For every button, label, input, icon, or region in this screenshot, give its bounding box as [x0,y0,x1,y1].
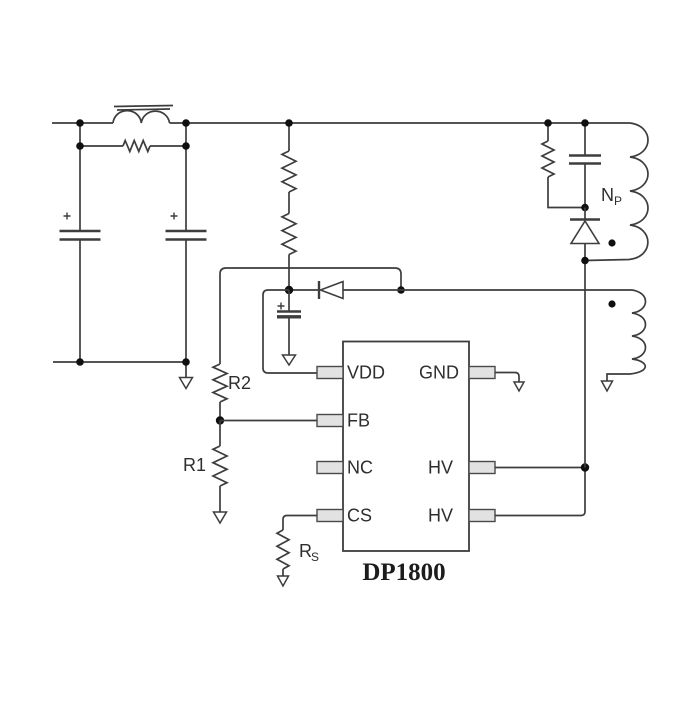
node: bottom rail / C2 ground junction [182,358,190,366]
node: top rail / startup resistor junction [285,119,293,127]
svg-text:GND: GND [419,363,459,383]
node: R2 wire / aux winding wire junction [397,286,405,294]
transformer aux winding [607,290,646,381]
pin HV2 of U1 [469,510,495,522]
pin NC of U1 [317,462,343,474]
pin FB of U1 [317,415,343,427]
wire: FB node to FB pin [220,420,317,422]
svg-text:DP1800: DP1800 [362,559,445,586]
node: primary bottom / drain junction [581,257,589,265]
wire: HV pin row3 to drain net [495,467,585,469]
node A: VDD storage node (diode cathode) [285,286,293,294]
ground (GND pin) [514,382,524,391]
node: HV junction [581,463,589,471]
node: bottom rail / C1 junction [76,358,84,366]
svg-text:NC: NC [347,458,373,478]
wire: CS pin to Rs [283,516,317,531]
capacitor C3 (VDD electrolytic) [277,290,301,355]
capacitor C2 (bulk electrolytic, right) [166,123,207,362]
svg-text:R2: R2 [228,373,251,393]
capacitor C1 (bulk electrolytic, left) [60,123,101,362]
resistor R6 (snubber) [542,123,585,208]
capacitor C4 (snubber) [569,123,601,208]
ground (aux winding) [602,381,613,391]
wire: node A to VDD pin [263,290,317,373]
IC U1 DP1800 body [343,342,469,552]
node: top rail / snubber cap junction [581,119,589,127]
ground (R1) [214,512,227,523]
polarity dot (aux) [608,300,615,307]
wire: drain vertical (primary bottom to HV) [584,261,586,468]
node: top rail / C2 junction [182,119,190,127]
node: FB divider junction [216,416,224,424]
pin HV of U1 [469,462,495,474]
resistor R4 (startup, upper) [282,123,296,192]
node: bleeder / C1 junction [76,142,84,150]
pin CS of U1 [317,510,343,522]
node: top rail / C1 junction [76,119,84,127]
diode D2 (VDD rectifier) [289,281,632,299]
wire: GND pin to ground [495,373,519,383]
svg-text:HV: HV [428,506,453,526]
transformer primary winding Np [585,123,648,261]
resistor R5 (startup, lower) [282,192,296,290]
ground (Rs) [278,576,289,586]
svg-text:HV: HV [428,458,453,478]
inductor L1 common-mode choke [113,106,173,124]
node: top rail / snubber resistor junction [544,119,552,127]
node: snubber bottom junction [581,204,589,212]
wire: R2 top to aux rectifier net [220,268,401,364]
resistor R1 [213,421,227,513]
svg-text:R1: R1 [183,455,206,475]
wire: bottom input rail [53,361,186,363]
svg-text:FB: FB [347,411,370,431]
svg-text:VDD: VDD [347,363,385,383]
svg-text:S: S [311,550,319,564]
polarity dot (primary) [608,239,615,246]
resistor Rs [277,530,289,576]
pin VDD of U1 [317,367,343,379]
svg-text:P: P [614,194,622,208]
ground (VDD capacitor) [283,355,296,365]
diode D1 (snubber clamp) [570,208,600,261]
wire: top input rail L+ [52,122,630,124]
ground (input rail) [180,362,193,389]
svg-text:N: N [601,185,614,205]
resistor R2 [213,364,227,421]
svg-text:CS: CS [347,506,372,526]
pin GND of U1 [469,367,495,379]
resistor R3 (NTC/bleeder across choke) [80,141,186,152]
wire: HV pin row4 to drain net [495,468,585,516]
node: bleeder / C2 junction [182,142,190,150]
